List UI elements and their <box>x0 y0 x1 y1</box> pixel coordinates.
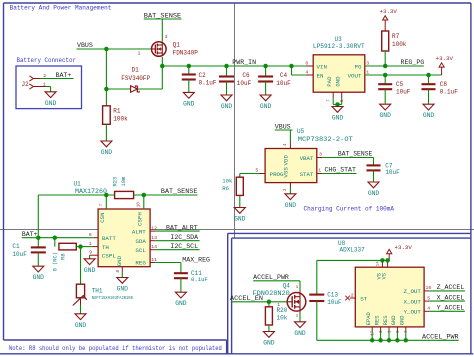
svg-text:C6: C6 <box>242 72 250 79</box>
svg-text:SCL: SCL <box>135 247 146 254</box>
svg-text:10k: 10k <box>277 314 288 321</box>
svg-text:VSS: VSS <box>283 167 290 178</box>
svg-text:GND: GND <box>423 112 435 119</box>
svg-text:+3.3V: +3.3V <box>395 244 413 251</box>
svg-text:R6: R6 <box>222 185 229 192</box>
svg-text:GND: GND <box>45 100 57 107</box>
svg-text:REG_PG: REG_PG <box>401 59 425 66</box>
svg-text:CSPL: CSPL <box>102 253 116 260</box>
svg-text:RES: RES <box>383 315 389 325</box>
svg-text:2: 2 <box>43 73 46 79</box>
svg-text:GND: GND <box>117 286 129 293</box>
svg-text:+3.3V: +3.3V <box>436 55 454 62</box>
svg-text:BAT+: BAT+ <box>56 72 72 79</box>
svg-text:BATT: BATT <box>102 235 116 242</box>
svg-text:VBUS: VBUS <box>77 42 93 49</box>
svg-text:Z_OUT: Z_OUT <box>403 288 421 295</box>
svg-text:R1: R1 <box>113 107 121 114</box>
svg-text:4: 4 <box>427 306 430 312</box>
svg-text:ALRT: ALRT <box>132 228 146 235</box>
svg-text:ST: ST <box>360 295 367 302</box>
svg-text:BAT+: BAT+ <box>22 231 38 238</box>
svg-text:U5: U5 <box>297 128 305 135</box>
svg-text:6: 6 <box>305 60 308 66</box>
svg-text:16: 16 <box>426 285 432 291</box>
svg-text:0.1uF: 0.1uF <box>440 89 458 96</box>
svg-text:Note: R8 should only be popula: Note: R8 should only be populated if the… <box>9 345 222 352</box>
svg-text:1: 1 <box>138 51 141 57</box>
svg-text:GND: GND <box>400 315 406 325</box>
svg-text:BAT_ALRT: BAT_ALRT <box>166 224 198 231</box>
svg-text:GND: GND <box>33 274 45 281</box>
svg-text:X_ACCEL: X_ACCEL <box>437 294 465 301</box>
svg-text:5: 5 <box>427 295 430 301</box>
svg-text:GND: GND <box>234 216 246 223</box>
svg-text:10uF: 10uF <box>276 80 291 87</box>
svg-text:R8: R8 <box>61 253 67 259</box>
svg-text:VBAT: VBAT <box>300 155 314 162</box>
svg-text:GND: GND <box>332 115 344 122</box>
svg-text:10uF: 10uF <box>12 251 27 258</box>
svg-text:MAX_REG: MAX_REG <box>182 256 210 263</box>
svg-text:C4: C4 <box>280 72 288 79</box>
svg-text:10uF: 10uF <box>327 299 342 306</box>
svg-text:REG: REG <box>135 260 146 267</box>
svg-text:STAT: STAT <box>300 171 314 178</box>
svg-text:ACCEL_EN: ACCEL_EN <box>230 295 263 302</box>
svg-text:FSV340FP: FSV340FP <box>121 75 150 82</box>
svg-text:0 (NC): 0 (NC) <box>52 252 58 271</box>
svg-text:GND: GND <box>221 103 233 110</box>
svg-text:10uF: 10uF <box>385 169 400 176</box>
svg-text:MAX17260: MAX17260 <box>75 188 107 195</box>
svg-text:GND: GND <box>175 300 187 307</box>
svg-text:0.1uF: 0.1uF <box>191 276 208 283</box>
svg-text:GND: GND <box>380 112 392 119</box>
svg-text:GND: GND <box>84 267 96 274</box>
svg-text:C8: C8 <box>440 81 448 88</box>
svg-text:PWR_IN: PWR_IN <box>232 59 256 66</box>
svg-text:D1: D1 <box>132 67 140 74</box>
svg-text:GND: GND <box>263 340 275 347</box>
svg-text:VDD: VDD <box>283 155 290 166</box>
svg-text:GND: GND <box>285 202 297 209</box>
svg-text:5: 5 <box>255 168 258 174</box>
svg-text:VIN: VIN <box>317 63 328 70</box>
svg-text:SDA: SDA <box>135 238 146 245</box>
svg-text:6: 6 <box>89 232 92 238</box>
svg-text:14: 14 <box>377 261 381 266</box>
svg-text:GND: GND <box>116 255 123 266</box>
svg-text:PROG: PROG <box>270 171 284 178</box>
svg-text:MCP73832-2-OT: MCP73832-2-OT <box>298 136 353 143</box>
svg-text:NXFT15XH103FA2B100: NXFT15XH103FA2B100 <box>92 295 133 301</box>
svg-text:PAD: PAD <box>326 76 333 87</box>
svg-text:GND: GND <box>75 322 87 329</box>
svg-text:LP5912-3.30RVT: LP5912-3.30RVT <box>313 43 365 50</box>
svg-text:10k: 10k <box>222 178 233 185</box>
svg-text:FDN340P: FDN340P <box>173 49 199 56</box>
svg-text:RES: RES <box>374 315 380 325</box>
svg-text:9: 9 <box>89 249 92 255</box>
svg-text:ADXL337: ADXL337 <box>340 246 366 253</box>
svg-text:BAT_SENSE: BAT_SENSE <box>338 151 373 158</box>
svg-text:C5: C5 <box>396 81 404 88</box>
svg-text:C1: C1 <box>12 243 20 250</box>
svg-text:Z_ACCEL: Z_ACCEL <box>437 284 465 291</box>
svg-text:GND: GND <box>391 315 397 325</box>
svg-text:VS: VS <box>382 273 388 279</box>
svg-text:EPAD: EPAD <box>366 312 372 325</box>
svg-text:R7: R7 <box>392 33 400 40</box>
svg-text:Q1: Q1 <box>173 41 181 48</box>
svg-text:Battery And Power Management: Battery And Power Management <box>10 4 112 11</box>
svg-text:100k: 100k <box>113 116 128 123</box>
svg-text:EN: EN <box>317 72 324 79</box>
svg-text:CSN: CSN <box>99 212 106 223</box>
svg-text:10: 10 <box>138 202 142 208</box>
svg-text:R20: R20 <box>277 307 288 314</box>
svg-text:GND: GND <box>334 76 341 87</box>
svg-text:Y_OUT: Y_OUT <box>403 309 421 316</box>
svg-text:1: 1 <box>89 241 92 247</box>
svg-text:BAT_SENSE: BAT_SENSE <box>144 12 181 19</box>
svg-text:3: 3 <box>165 34 168 40</box>
svg-text:2: 2 <box>351 292 354 298</box>
svg-text:1: 1 <box>43 81 46 87</box>
svg-text:100k: 100k <box>392 41 407 48</box>
svg-text:Y_ACCEL: Y_ACCEL <box>437 305 465 312</box>
svg-text:U3: U3 <box>335 36 343 43</box>
svg-text:GND: GND <box>183 100 195 107</box>
svg-text:J2: J2 <box>22 81 30 88</box>
svg-text:10uF: 10uF <box>396 89 411 96</box>
svg-text:BAT_SENSE: BAT_SENSE <box>161 188 198 195</box>
svg-text:GND: GND <box>368 190 380 197</box>
svg-text:Battery Connector: Battery Connector <box>17 57 77 64</box>
svg-text:ACCEL_PWR: ACCEL_PWR <box>253 274 289 281</box>
svg-text:4: 4 <box>305 69 308 75</box>
svg-text:C2: C2 <box>199 72 207 79</box>
svg-text:ACCEL_PWR: ACCEL_PWR <box>422 333 459 340</box>
svg-text:CHG_STAT: CHG_STAT <box>325 167 356 174</box>
svg-text:TH1: TH1 <box>92 287 103 294</box>
svg-text:U1: U1 <box>74 180 82 187</box>
svg-text:I2C_SDA: I2C_SDA <box>170 234 198 241</box>
svg-text:10m: 10m <box>121 177 127 187</box>
svg-text:VBUS: VBUS <box>275 123 291 130</box>
svg-text:C13: C13 <box>327 292 338 299</box>
svg-text:0.1uF: 0.1uF <box>199 80 217 87</box>
svg-text:3: 3 <box>319 152 322 158</box>
svg-text:I2C_SCL: I2C_SCL <box>170 243 198 250</box>
svg-text:10uF: 10uF <box>237 80 252 87</box>
svg-text:1: 1 <box>318 168 321 174</box>
svg-text:GND: GND <box>260 103 272 110</box>
svg-text:TH: TH <box>102 244 109 251</box>
svg-text:X_OUT: X_OUT <box>403 298 421 305</box>
svg-text:GND: GND <box>101 149 113 156</box>
svg-text:VOUT: VOUT <box>348 72 362 79</box>
svg-text:GND: GND <box>294 330 306 337</box>
svg-text:R23: R23 <box>112 177 118 187</box>
svg-text:Q4: Q4 <box>283 283 291 290</box>
svg-text:+3.3V: +3.3V <box>379 8 397 15</box>
svg-text:CSPH: CSPH <box>137 212 144 226</box>
svg-text:PG: PG <box>355 63 362 70</box>
svg-text:Charging Current of 100mA: Charging Current of 100mA <box>304 205 395 212</box>
